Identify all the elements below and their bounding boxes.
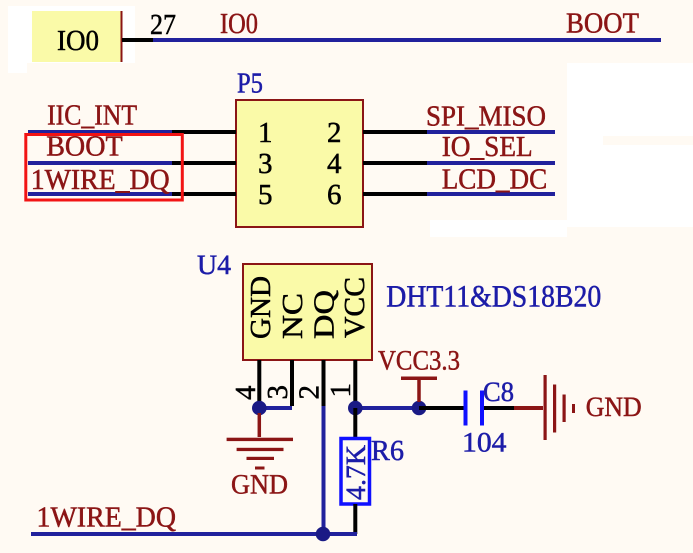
wire LCD_DC: [427, 192, 555, 196]
wire BOOT: [28, 161, 172, 165]
pin 3 stub (NC): [290, 360, 294, 406]
wire 1WIRE_DQ: [28, 192, 172, 196]
highlight rectangle (red): [26, 135, 183, 201]
svg-text:2: 2: [294, 385, 326, 400]
pin 6 stub: [363, 192, 427, 196]
wire SPI_MISO: [427, 130, 555, 134]
svg-text:VCC: VCC: [339, 277, 371, 338]
capacitor C8 plate 2: [480, 391, 484, 426]
svg-text:VCC3.3: VCC3.3: [378, 345, 460, 376]
svg-text:P5: P5: [237, 68, 263, 100]
wire IO_SEL: [427, 161, 555, 165]
svg-text:27: 27: [150, 9, 176, 41]
svg-text:IO_SEL: IO_SEL: [442, 131, 533, 163]
white patch behind IO0 port: [27, 6, 135, 63]
svg-text:IIC_INT: IIC_INT: [47, 99, 137, 131]
svg-text:1WIRE_DQ: 1WIRE_DQ: [31, 164, 170, 196]
svg-text:GND: GND: [586, 392, 642, 423]
capacitor C8 plate 1: [464, 391, 468, 426]
pin 5 stub: [172, 192, 236, 196]
resistor R6 body: [341, 439, 370, 505]
svg-text:IO0: IO0: [220, 8, 258, 40]
wire VCC junction to VCC symbol: [355, 406, 419, 410]
svg-text:LCD_DC: LCD_DC: [442, 163, 548, 195]
earth ground bar 2 (right): [553, 385, 556, 433]
svg-text:R6: R6: [371, 435, 404, 467]
junction VCC symbol: [412, 401, 427, 416]
svg-text:1: 1: [258, 117, 273, 149]
wire elbow NC to GND junction: [259, 406, 292, 410]
svg-text:U4: U4: [197, 250, 231, 281]
port IO0 yellow box: [32, 11, 122, 62]
svg-text:5: 5: [258, 179, 273, 211]
junction VCC pin: [348, 401, 363, 416]
white patch left tab: [8, 6, 27, 73]
svg-text:104: 104: [462, 427, 507, 458]
pin 3 stub: [172, 161, 236, 165]
ground stem (left GND): [258, 413, 262, 437]
pin 1 stub (VCC): [353, 360, 357, 404]
earth ground bar 3 (right): [563, 395, 566, 423]
cream band inside white region: [603, 136, 693, 145]
svg-text:1: 1: [325, 383, 357, 398]
svg-text:4.7K: 4.7K: [341, 445, 372, 500]
svg-text:1WIRE_DQ: 1WIRE_DQ: [37, 501, 177, 533]
pin 4 stub: [363, 161, 427, 165]
svg-text:6: 6: [327, 179, 342, 211]
resistor R6 bottom lead: [353, 504, 357, 534]
wire net IO0 (blue): [153, 38, 661, 42]
resistor R6 top lead: [353, 408, 357, 439]
power symbol VCC3.3 bar: [401, 377, 437, 381]
svg-text:IO0: IO0: [57, 25, 99, 57]
ground bar 2: [237, 448, 284, 451]
port IO0 right border line: [121, 11, 123, 62]
pin 2 stub: [363, 130, 427, 134]
capacitor C8 right wire (black): [484, 406, 514, 410]
wire 1WIRE_DQ bottom: [31, 532, 357, 536]
power symbol VCC3.3 stem: [417, 380, 421, 402]
svg-text:2: 2: [327, 117, 342, 149]
wire IIC_INT: [28, 130, 172, 134]
junction GND pins: [252, 401, 267, 416]
ground bar 4: [255, 467, 265, 470]
svg-text:NC: NC: [277, 293, 309, 339]
white patch right region: [567, 63, 693, 227]
pin 2 stub (DQ): [322, 360, 326, 406]
capacitor C8 left wire: [419, 406, 464, 410]
svg-text:GND: GND: [231, 470, 288, 501]
white band under right region: [430, 220, 567, 237]
svg-text:3: 3: [258, 148, 273, 180]
svg-text:BOOT: BOOT: [566, 8, 639, 40]
junction bottom wire: [316, 527, 331, 542]
connector P5 body: [236, 100, 363, 227]
svg-text:SPI_MISO: SPI_MISO: [426, 100, 546, 132]
wire DQ vertical: [322, 406, 326, 534]
svg-text:4: 4: [327, 148, 342, 180]
svg-text:DHT11&DS18B20: DHT11&DS18B20: [386, 278, 601, 313]
ground bar 3: [247, 457, 275, 460]
earth ground bar 1 (right): [544, 375, 547, 440]
pin 1 stub: [172, 130, 236, 134]
sensor U4 body: [243, 264, 372, 360]
earth ground bar 4 (right): [572, 404, 575, 413]
wire to ground (dark red): [514, 406, 543, 410]
pin wire (black) from port: [122, 38, 153, 42]
svg-text:C8: C8: [483, 377, 514, 408]
svg-text:GND: GND: [245, 276, 277, 339]
ground bar 1: [227, 438, 293, 441]
svg-text:3: 3: [262, 385, 294, 400]
pin 4 stub (GND): [257, 360, 261, 404]
svg-text:4: 4: [230, 385, 262, 400]
svg-text:DQ: DQ: [308, 290, 340, 339]
